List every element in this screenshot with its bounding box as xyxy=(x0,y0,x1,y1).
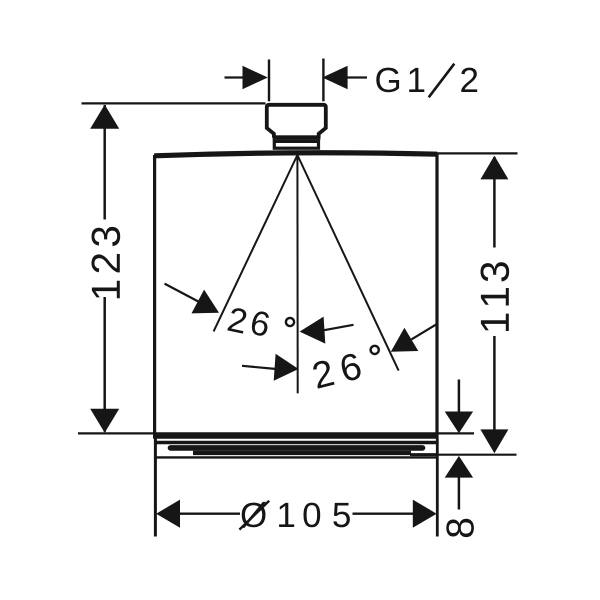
label 105 glyph 0 xyxy=(304,503,321,528)
113 dimension line upper xyxy=(493,157,496,248)
arrow 8 up xyxy=(445,456,473,478)
top width leader left xyxy=(225,76,245,78)
bottom extension line across xyxy=(78,432,474,434)
connector nut band xyxy=(273,135,321,140)
113 dimension line lower xyxy=(493,336,496,452)
spray face right thin step xyxy=(410,453,437,456)
arrow angle lower center xyxy=(274,354,299,381)
123 dimension line upper xyxy=(103,105,106,220)
arrow angle lower right xyxy=(391,328,419,352)
diameter extension line left xyxy=(154,439,157,537)
shower head body left edge xyxy=(153,155,156,439)
label 105 glyph 5 xyxy=(333,503,350,527)
label diameter symbol xyxy=(241,502,266,528)
arrow 123 up xyxy=(90,105,119,129)
connector flange xyxy=(274,141,318,148)
label 26 upper glyph 2 xyxy=(227,307,247,334)
spray plate rim line xyxy=(156,441,437,445)
arrow 8 down xyxy=(445,412,473,434)
spray angle center line xyxy=(296,155,298,393)
arrow 123 down xyxy=(90,409,119,433)
113 top extension line xyxy=(437,152,518,154)
arrow 113 up xyxy=(480,156,508,180)
label 113 xyxy=(481,262,510,331)
arrow angle upper center xyxy=(300,317,326,344)
arrow diameter right xyxy=(413,500,437,528)
body bottom edge band xyxy=(154,434,438,439)
spray face dark band xyxy=(171,445,423,451)
bottom right extension line xyxy=(436,454,517,456)
arrow diameter left xyxy=(156,500,180,528)
123 dimension line lower xyxy=(103,297,106,432)
top width extension line left xyxy=(268,60,270,102)
shower head body right edge xyxy=(435,154,438,439)
label 8 xyxy=(446,519,474,537)
spray angle left line xyxy=(214,155,298,331)
label G 1/2 glyph G xyxy=(376,68,399,93)
label 123 xyxy=(92,227,121,298)
spray plate bottom edge xyxy=(155,456,437,458)
label G 1/2 glyph 1 xyxy=(409,68,424,92)
angle leader upper left xyxy=(165,284,200,302)
label 26 upper degree xyxy=(286,318,294,326)
123 top extension line xyxy=(82,102,266,104)
label G 1/2 slash xyxy=(429,64,455,98)
arrow top width left xyxy=(243,66,268,89)
8 dimension upper stem xyxy=(458,380,461,414)
label 26 lower glyph 2 xyxy=(312,359,335,389)
arrow top width right xyxy=(322,66,347,89)
label 26 lower glyph 6 xyxy=(339,352,362,382)
diameter extension line right xyxy=(436,439,439,537)
label diameter slash xyxy=(239,501,269,530)
arrow 113 down xyxy=(480,429,508,453)
arrow angle upper left xyxy=(192,290,220,314)
diameter dimension line left xyxy=(179,513,240,515)
label G 1/2 glyph 2 xyxy=(461,68,477,92)
connector fitting outline xyxy=(267,105,326,138)
8 dimension lower stem xyxy=(458,476,461,510)
label 26 lower degree xyxy=(371,346,379,354)
label 26 upper glyph 6 xyxy=(250,310,271,337)
shower head body top face xyxy=(154,153,437,156)
angle leader lower left xyxy=(242,366,275,369)
top width extension line right xyxy=(322,59,324,102)
angle leader lower right xyxy=(411,325,436,340)
diameter dimension line right xyxy=(353,513,415,515)
spray face lower step xyxy=(193,451,411,455)
top width leader right xyxy=(346,76,367,78)
label 105 glyph 1 xyxy=(279,503,294,527)
spray angle right line xyxy=(297,155,398,371)
angle leader upper right xyxy=(324,325,354,330)
